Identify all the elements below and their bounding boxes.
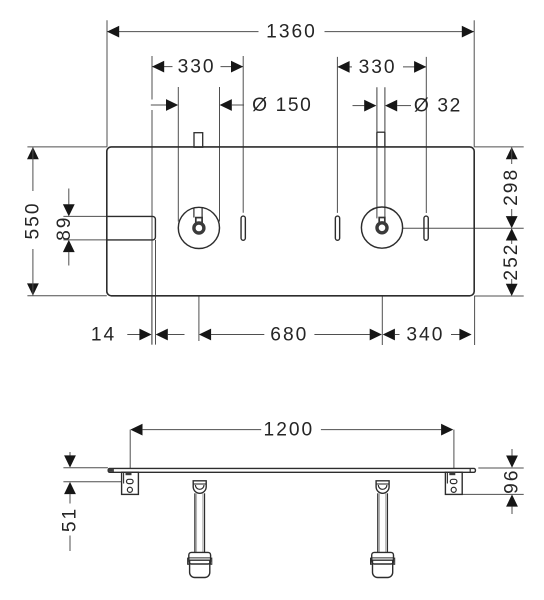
svg-text:298: 298 bbox=[501, 168, 522, 206]
svg-text:14: 14 bbox=[91, 324, 116, 345]
svg-text:89: 89 bbox=[54, 216, 75, 241]
svg-text:330: 330 bbox=[359, 57, 397, 78]
svg-text:252: 252 bbox=[501, 243, 522, 281]
svg-text:51: 51 bbox=[60, 507, 81, 532]
svg-text:1360: 1360 bbox=[266, 22, 317, 43]
svg-text:330: 330 bbox=[178, 57, 216, 78]
svg-text:Ø 150: Ø 150 bbox=[252, 95, 312, 116]
svg-text:1200: 1200 bbox=[264, 420, 315, 441]
svg-text:Ø 32: Ø 32 bbox=[414, 96, 462, 117]
svg-text:680: 680 bbox=[270, 324, 308, 345]
svg-text:96: 96 bbox=[502, 469, 523, 494]
svg-text:340: 340 bbox=[406, 324, 444, 345]
svg-text:550: 550 bbox=[22, 201, 43, 239]
